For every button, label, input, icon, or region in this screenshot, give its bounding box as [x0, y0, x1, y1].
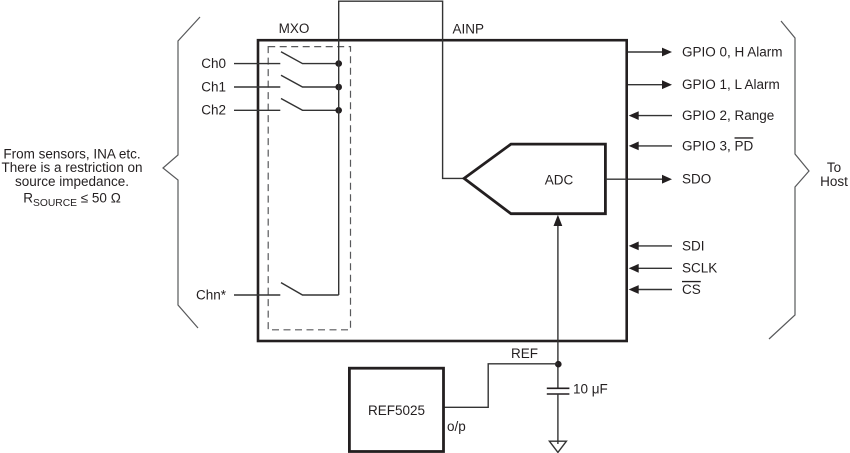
wire GPIO 3 in arrow [638, 145, 672, 147]
brace right (to host) [769, 21, 809, 339]
wire Ch2 input [234, 109, 280, 111]
svg-text:SDO: SDO [682, 172, 711, 187]
svg-text:Chn*: Chn* [196, 287, 227, 302]
wire Ch0 input [234, 63, 280, 65]
node REF junction [555, 361, 562, 368]
wire SDI in arrow [638, 245, 672, 247]
svg-text:To: To [827, 160, 841, 175]
wire GPIO 0 out arrow [628, 51, 663, 53]
wire Chn input [234, 294, 280, 296]
svg-text:GPIO 2, Range: GPIO 2, Range [682, 108, 774, 123]
svg-text:source impedance.: source impedance. [15, 174, 129, 189]
svg-text:10 μF: 10 μF [573, 382, 608, 397]
wire Ch1 input [234, 86, 280, 88]
wire capacitor to ground [557, 394, 559, 444]
switch S2 [281, 99, 339, 111]
switch S1 [281, 75, 339, 87]
wire SDO from ADC [605, 178, 627, 180]
wire CS in arrow [638, 289, 672, 291]
wire GPIO 2 in arrow [638, 115, 672, 117]
svg-text:REF5025: REF5025 [368, 403, 425, 418]
svg-text:GPIO 3, PD: GPIO 3, PD [682, 138, 754, 153]
svg-text:SDI: SDI [682, 238, 705, 253]
svg-text:MXO: MXO [279, 21, 310, 36]
op-amp ADC pentagon [464, 144, 605, 214]
node Ch0 junction [335, 60, 342, 67]
svg-text:GPIO 0, H Alarm: GPIO 0, H Alarm [682, 44, 783, 59]
wire REF vertical into ADC with arrow [557, 225, 559, 388]
svg-text:Ch0: Ch0 [201, 56, 226, 71]
svg-text:o/p: o/p [447, 419, 466, 434]
main device box U1 [258, 40, 627, 341]
voltage reference U2 REF5025 box [349, 368, 443, 451]
svg-text:SCLK: SCLK [682, 261, 717, 276]
svg-text:AINP: AINP [453, 22, 485, 37]
wire SCLK in arrow [638, 267, 672, 269]
ground [549, 441, 566, 452]
wire REF5025 output to REF node [444, 364, 558, 408]
svg-text:There is a restriction on: There is a restriction on [1, 160, 142, 175]
wire SDO out arrow [628, 178, 663, 180]
node Ch2 junction [335, 107, 342, 114]
wire GPIO 1 out arrow [628, 84, 663, 86]
wire mux output bus to AINP [339, 1, 464, 295]
svg-text:ADC: ADC [545, 173, 574, 188]
switch Sn [281, 283, 339, 295]
svg-text:Ch2: Ch2 [201, 103, 226, 118]
capacitor C1 plates [547, 387, 570, 389]
mux dashed box [268, 47, 350, 330]
svg-text:CS: CS [682, 282, 701, 297]
svg-text:REF: REF [511, 346, 538, 361]
svg-text:Host: Host [820, 174, 848, 189]
brace left (from sensors) [163, 17, 200, 328]
svg-text:Ch1: Ch1 [201, 79, 226, 94]
svg-text:GPIO 1, L Alarm: GPIO 1, L Alarm [682, 77, 780, 92]
switch S0 [281, 52, 339, 64]
node Ch1 junction [335, 84, 342, 91]
